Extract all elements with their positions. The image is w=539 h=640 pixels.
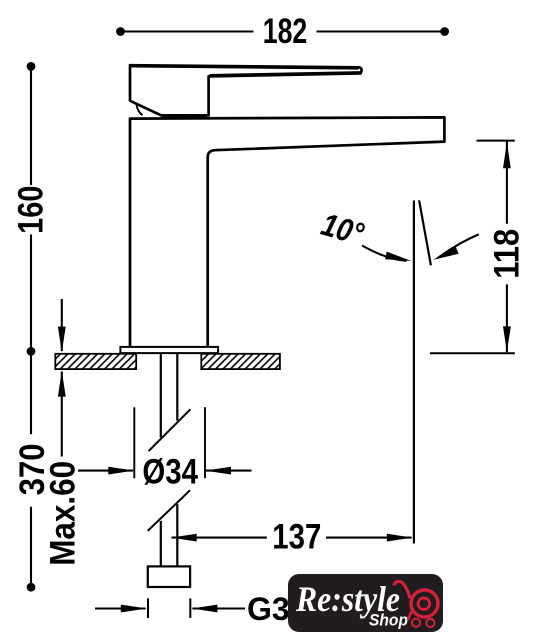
handle lever top edge thickening (131, 66, 359, 68)
svg-text:Max.60: Max.60 (44, 461, 83, 566)
dim O34 right arrow (206, 470, 252, 472)
dim 118 ticks (477, 140, 515, 142)
dim Max.60 lower arrow (61, 372, 63, 457)
dim 137 right arrow (326, 537, 412, 539)
dim O34 left arrow (78, 470, 133, 472)
svg-text:118: 118 (488, 229, 527, 279)
break line 2 (148, 490, 190, 531)
svg-text:160: 160 (11, 186, 50, 234)
supply rod lower segment (160, 521, 162, 567)
dim 182 line (121, 30, 254, 32)
dim 118 line (506, 142, 508, 224)
dim 137 left arrow (172, 537, 267, 539)
angle right arc arrow (438, 234, 479, 258)
supply rod upper segment (160, 353, 162, 437)
svg-text:182: 182 (263, 12, 308, 51)
svg-text:Ø34: Ø34 (142, 452, 198, 491)
logo cart leg (408, 612, 412, 621)
countertop deck right (hatched) (201, 354, 280, 369)
logo cart wheel 2 (426, 619, 434, 627)
base plate (120, 347, 218, 353)
faucet handle lever (130, 65, 362, 115)
dim G3/8 left arrow (95, 607, 146, 609)
angle left arc arrow (362, 246, 407, 261)
svg-text:Shop: Shop (369, 611, 408, 630)
break line 1 (149, 409, 191, 451)
outlet tilted line (10 deg) (419, 200, 431, 265)
logo box (288, 574, 443, 632)
handle lever underside thickening (210, 72, 361, 75)
logo cart @ inner (418, 598, 430, 610)
handle heel arc (137, 104, 143, 115)
dim 160 line (30, 66, 32, 185)
dim G3/8 right arrow (193, 607, 246, 609)
logo cart @ outer (411, 590, 438, 617)
dim G3/8 ticks (147, 598, 149, 618)
logo cart wheel 1 (412, 619, 420, 627)
hose connector (148, 566, 190, 587)
countertop deck left (hatched) (55, 354, 136, 369)
svg-text:137: 137 (272, 518, 321, 557)
dim O34 extension lines (133, 407, 135, 478)
handle bottom thick edge (162, 115, 207, 118)
outlet vertical reference line (413, 201, 415, 544)
dim 370 line (30, 351, 32, 434)
dim Max.60 upper arrow (61, 299, 63, 351)
faucet body and spout outline (130, 117, 444, 346)
logo cart handle (394, 581, 410, 598)
